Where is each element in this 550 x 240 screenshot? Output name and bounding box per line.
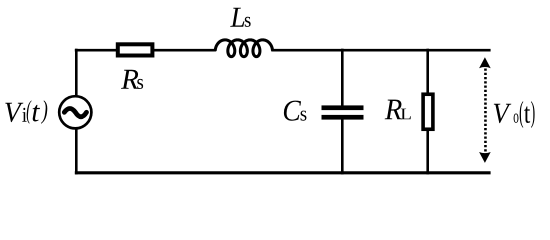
capacitor Cs bottom stub	[341, 119, 344, 174]
wire left vertical lower	[75, 128, 78, 174]
output arrow top head	[479, 57, 491, 68]
source Vi circle	[59, 96, 91, 128]
label Ls	[230, 8, 250, 27]
resistor Rs	[118, 44, 153, 55]
resistor RL top stub	[426, 49, 429, 94]
label Vi(t)	[5, 100, 47, 124]
label Vo(t)	[494, 101, 535, 128]
wire top segment from Ls to right port	[271, 49, 490, 52]
output arrow bottom head	[479, 152, 491, 163]
capacitor Cs bottom plate	[322, 115, 364, 120]
label Cs	[284, 101, 307, 121]
wire top segment left of Rs	[75, 49, 117, 52]
resistor RL bottom stub	[426, 130, 429, 175]
inductor Ls	[215, 40, 272, 57]
wire left vertical upper	[75, 49, 78, 97]
output arrow dotted shaft	[484, 69, 487, 153]
wire bottom	[75, 171, 491, 174]
source sine symbol	[64, 109, 86, 117]
capacitor Cs top stub	[341, 49, 344, 106]
resistor RL body	[423, 94, 433, 129]
label RL	[385, 100, 411, 120]
wire top segment between Rs and Ls	[153, 49, 215, 52]
capacitor Cs top plate	[322, 105, 364, 110]
label Rs	[121, 70, 143, 89]
